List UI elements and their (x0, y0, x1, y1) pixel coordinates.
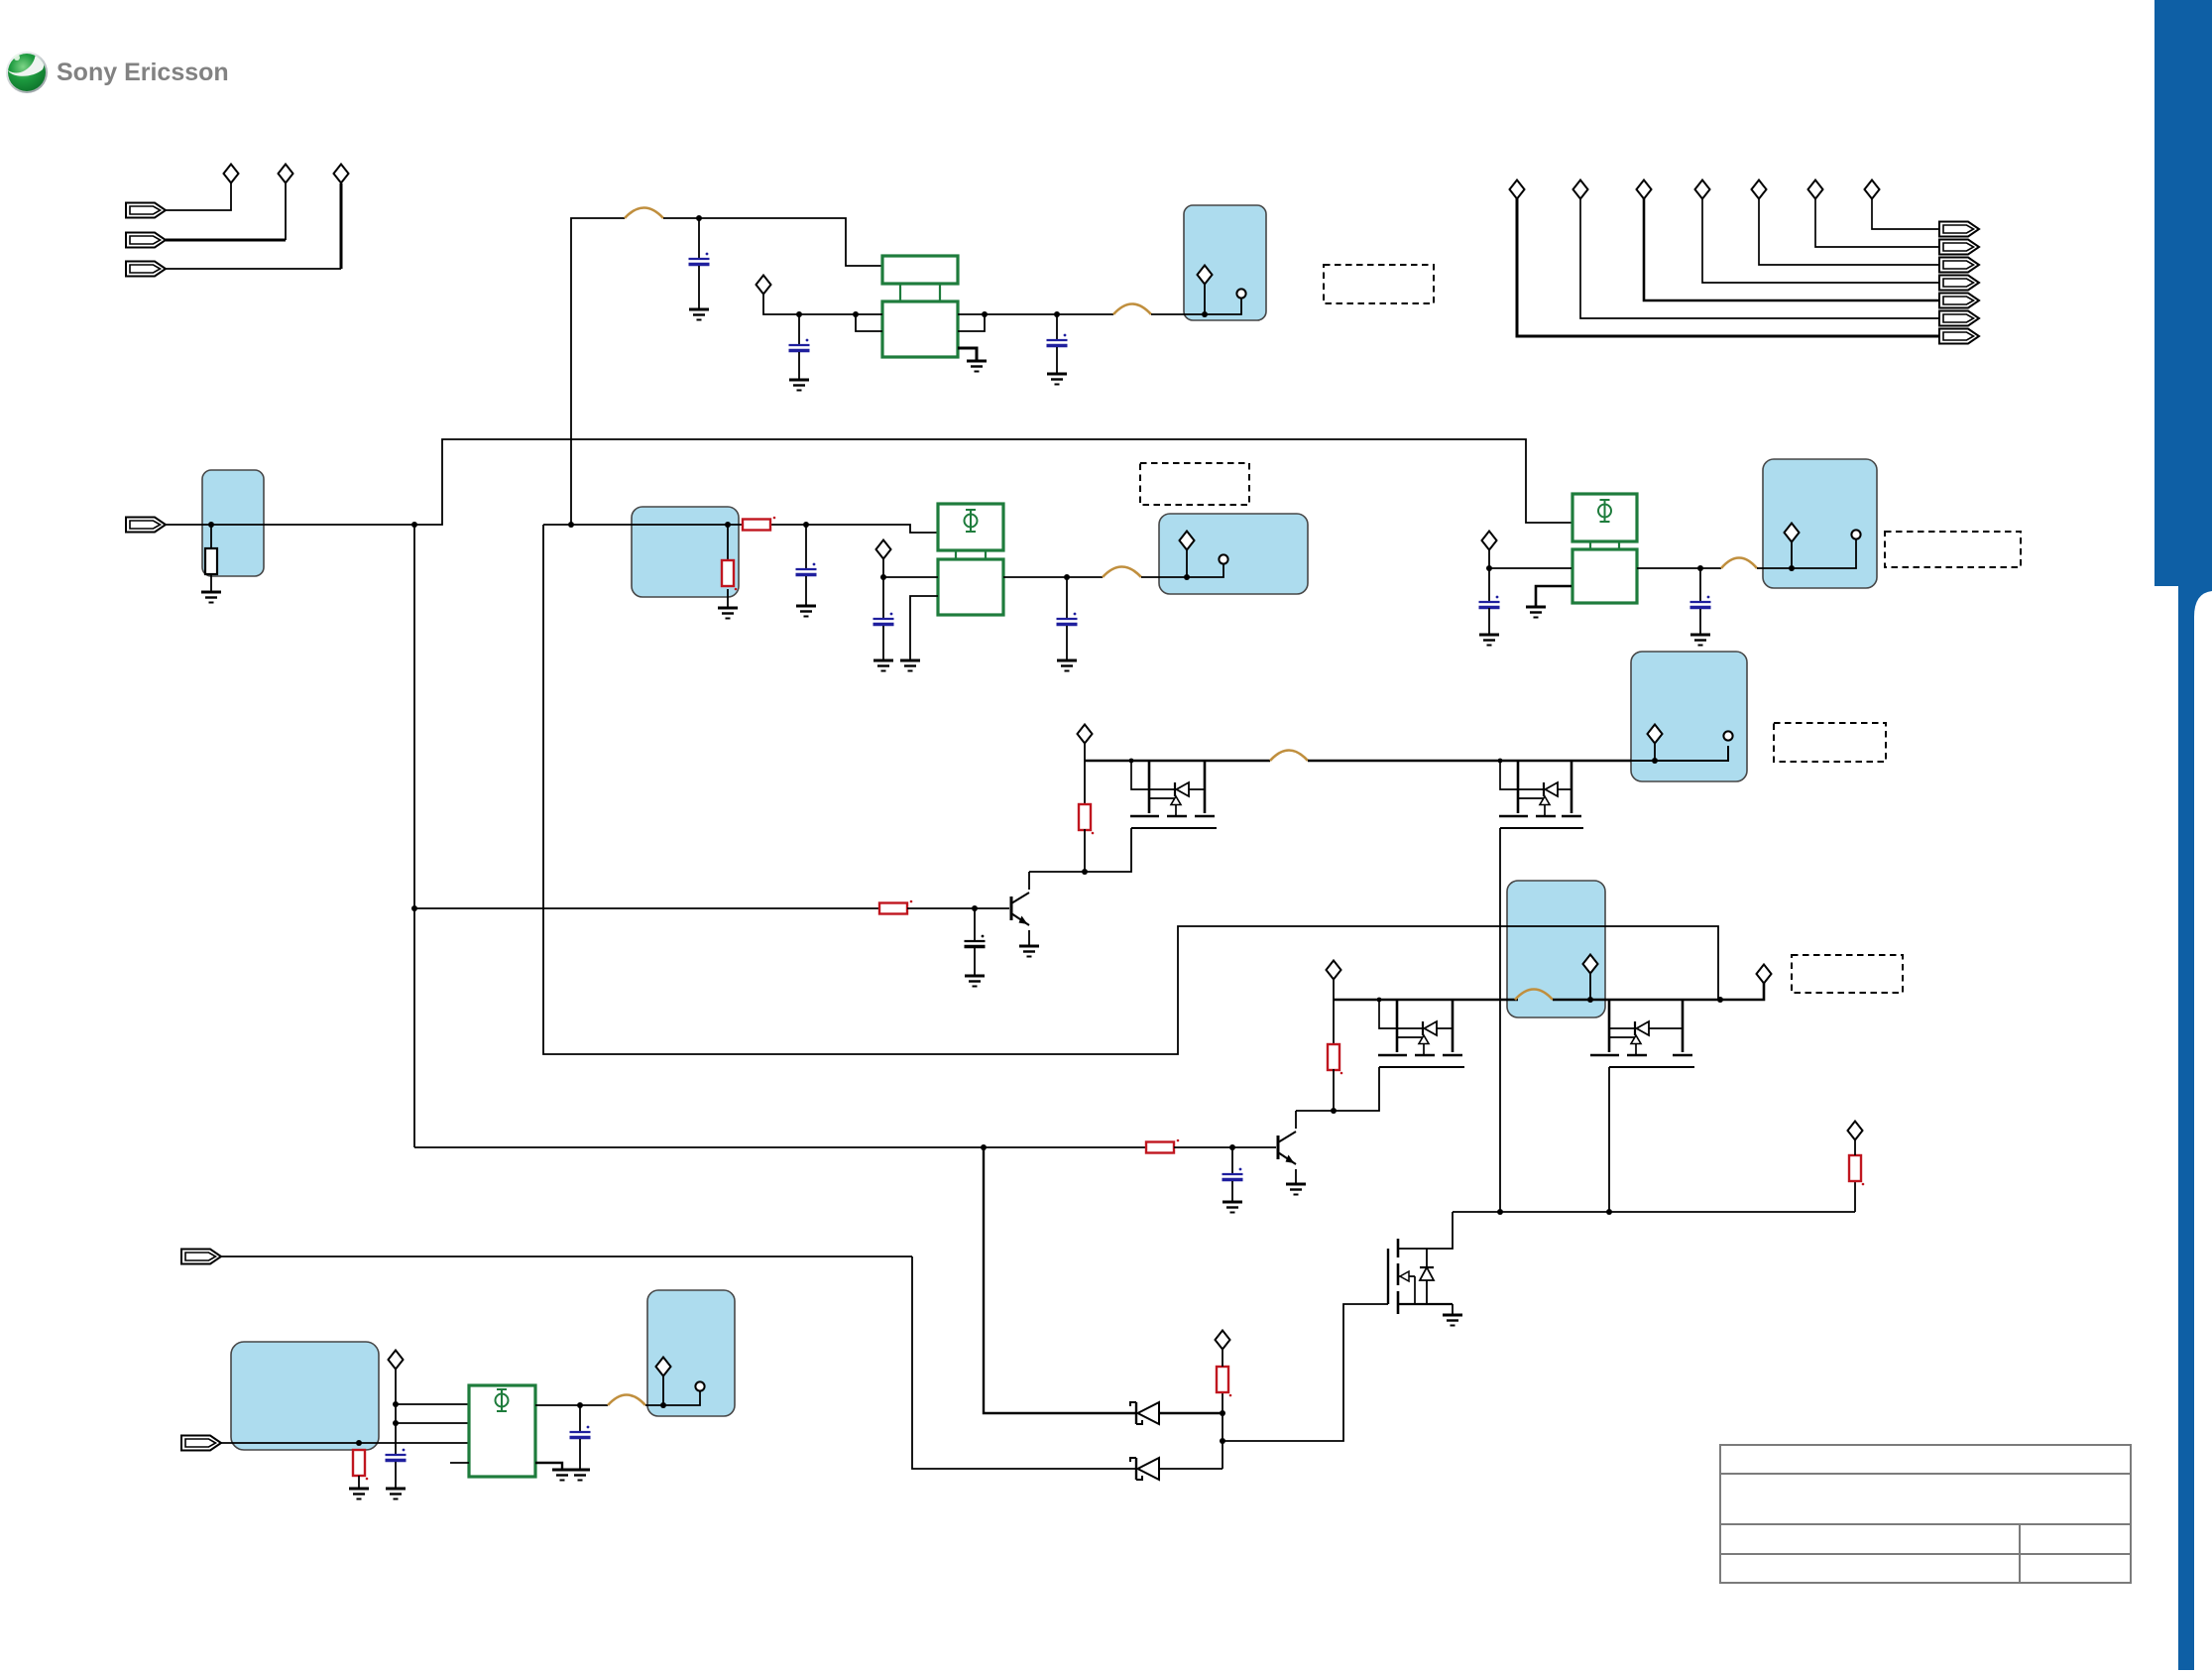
wire R9 to diamond (1222, 1349, 1223, 1367)
resistor R7 (1146, 1139, 1179, 1153)
capacitor C9 (965, 935, 986, 947)
capacitor C1 (689, 253, 710, 265)
ground C11 (386, 1489, 406, 1499)
wire VSIM diamond stem (662, 1376, 664, 1405)
wire C9 to ground (974, 948, 976, 976)
transistor Q3 (NPN) (1011, 893, 1029, 925)
junction C9 (972, 905, 978, 911)
junction VOUT3 (1486, 565, 1492, 571)
junction C2 (796, 311, 802, 317)
resistor R6 (1328, 1044, 1342, 1074)
junction U1 left pins (853, 311, 859, 317)
connector Q5 (top-right) (1939, 258, 1979, 273)
ground U2 (900, 660, 920, 671)
junction C4 (803, 522, 809, 528)
wire P1 to node A (166, 183, 231, 210)
wire diamond T4 to connector Q4 (1702, 198, 1939, 283)
wire R9 stem (1222, 1391, 1223, 1413)
wire R6 to collector node (1333, 1069, 1335, 1111)
wire U4 pin1 (396, 1403, 469, 1405)
capacitor C12 (570, 1426, 591, 1438)
wire Q6 emitter drop (1295, 1169, 1297, 1184)
junction C8 (1697, 565, 1703, 571)
junction B1 branch (411, 905, 417, 911)
junction R10 tap (356, 1440, 362, 1446)
ground Q7 source (1443, 1315, 1462, 1326)
wire P5 drop to D2 (912, 1256, 1136, 1469)
junction VOUT-A diamond stem (1652, 758, 1658, 764)
diamond VMEM (1180, 532, 1195, 550)
wire U2 gnd pin (910, 596, 938, 660)
diamond VDIG (1198, 266, 1213, 285)
wire R5 to base node (907, 907, 975, 909)
transistor Q2 (PMOS) (1499, 761, 1583, 828)
ground R2 (718, 608, 738, 619)
wire U4 output (535, 1404, 608, 1406)
dashed label box DR4 (1774, 723, 1886, 762)
junction VOUT2 (880, 574, 886, 580)
junction C6 (1064, 574, 1070, 580)
off-page diamond C (334, 165, 349, 183)
wire C11 to ground (395, 1462, 397, 1489)
diamond node VOUT2 (876, 540, 891, 559)
wire VBUS vertical branch (413, 525, 415, 1147)
inductor L2 (1113, 304, 1151, 315)
wire Q6 collector riser (1295, 1111, 1297, 1129)
off-page diamond T6 (1808, 180, 1823, 199)
connector P3 (126, 262, 166, 277)
wire U1 output pin2 (958, 313, 1057, 315)
wire VRF diamond stem (1791, 541, 1793, 568)
resistor R9 (1217, 1367, 1231, 1396)
pin circle VMEM (1219, 554, 1227, 563)
wire P3 to node C (166, 268, 341, 270)
blue sidebar (2154, 0, 2212, 1670)
wire VOUT2 stem (882, 558, 884, 577)
wire Q3 emitter drop (1028, 930, 1030, 946)
net label box NL1 (202, 470, 264, 576)
transistor Q1 (PMOS) (1130, 761, 1217, 828)
junction VBUS drop (981, 1144, 987, 1150)
wire Q3 collector riser (1028, 872, 1030, 890)
wire C5 stem (882, 577, 884, 619)
wire C3 to ground (1056, 347, 1058, 374)
resistor R1 (black) (205, 548, 217, 574)
wire R1 to ground (210, 574, 212, 592)
diamond VOUT-A (1648, 725, 1663, 744)
wire U1 pin3 left step (856, 314, 882, 331)
diamond node VBATT (389, 1351, 404, 1370)
capacitor C6 (1057, 613, 1078, 625)
wire R1 stem (210, 525, 212, 548)
resistor R5 (879, 900, 912, 914)
junction P4 branch (411, 522, 417, 528)
wire VOUT3 stem (1488, 549, 1490, 568)
connector Q2 (top-right) (1939, 311, 1979, 326)
diamond node EN1 (1078, 725, 1093, 744)
resistor R10 (353, 1450, 368, 1480)
regulator U3 (1572, 494, 1637, 603)
pin circle VRF (1851, 530, 1860, 538)
connector P2 (126, 233, 166, 248)
wire L2 to VDIG pins (1151, 299, 1241, 314)
off-page diamond T5 (1752, 180, 1767, 199)
ground Q3 emitter (1019, 946, 1039, 957)
wire Q7 gate run (1222, 1304, 1388, 1441)
wire diamond T2 to connector Q2 (1580, 198, 1939, 318)
off-page diamond B (279, 165, 293, 183)
diamond node EN4 (1848, 1122, 1863, 1140)
wire Q5 gate long drop (1608, 1067, 1610, 1212)
junction U4 pin2 tap (393, 1420, 399, 1426)
connector Q7 (top-right) (1939, 222, 1979, 237)
wire diamond T6 to connector Q6 (1815, 198, 1939, 247)
wire rail1 right (1308, 760, 1631, 763)
wire R10 to ground (358, 1476, 360, 1489)
net label box NL3 (1507, 881, 1605, 1017)
regulator U1 (882, 256, 958, 357)
ground C10 (1222, 1202, 1242, 1213)
net label box VMEM (1159, 514, 1308, 594)
net label box VRF (1763, 459, 1877, 588)
junction U1 outputs (982, 311, 988, 317)
regulator U4 (469, 1385, 535, 1477)
ground U3 (1526, 607, 1546, 618)
wire U1 gnd pin (958, 348, 977, 361)
wire Q3 base (975, 907, 1009, 909)
diode D1 (schottky) (1130, 1402, 1159, 1424)
diamond node EN5 (1216, 1331, 1230, 1350)
diamond node EN2 (1327, 961, 1341, 980)
capacitor C7 (1479, 596, 1500, 608)
dashed label box DR2 (1140, 463, 1249, 505)
wire U2 main row left (883, 576, 938, 578)
svg-text:Sony Ericsson: Sony Ericsson (57, 59, 229, 86)
wire row B1 (414, 907, 879, 909)
wire R8 upper stem (1854, 1139, 1856, 1155)
wire C12 stem (579, 1405, 581, 1432)
ground C8 (1690, 635, 1710, 646)
wire VBATT stem (395, 1369, 397, 1455)
junction SW-Q2gate (1497, 1209, 1503, 1215)
junction Q6 collector node (1331, 1108, 1337, 1114)
resistor R3 (743, 517, 775, 531)
wire C1 to ground (698, 266, 700, 309)
transistor Q7 (NMOS vertical) (1388, 1239, 1453, 1314)
ground U4 (552, 1470, 572, 1481)
wire rail2 left (1334, 999, 1518, 1002)
wire U4 pin2 (396, 1422, 469, 1424)
wire X branch down (543, 525, 1718, 1054)
wire C8 to ground (1699, 609, 1701, 635)
capacitor C4 (796, 563, 817, 575)
junction Q3 collector node (1082, 869, 1088, 875)
junction Q2 body tap (1498, 759, 1503, 764)
connector P1 (top-left) (126, 203, 166, 218)
wire P4 row (166, 439, 1572, 525)
wire U3 main row left (1489, 567, 1572, 569)
pin circle VOUT-A (1723, 731, 1732, 740)
wire C4 to ground (805, 576, 807, 606)
wire C6 stem (1066, 577, 1068, 619)
net label box NL2 (632, 507, 739, 597)
wire P6 row (221, 1442, 469, 1444)
wire C2 to ground (798, 352, 800, 380)
net label box VDIG (1184, 205, 1266, 320)
wire VMEM diamond stem (1186, 549, 1188, 577)
wire to L2 (1057, 313, 1113, 315)
dashed label box DR1 (1324, 265, 1434, 303)
wire NL3 diamond stem (1589, 973, 1591, 1000)
wire C5 to ground (882, 626, 884, 660)
wire U1 output pin3 step (958, 314, 985, 331)
wire rail2 right (1683, 983, 1764, 1000)
capacitor C8 (1690, 596, 1711, 608)
wire D1 cathode to node (1159, 1412, 1222, 1414)
junction rail2 feed (1717, 997, 1723, 1003)
wire C4 stem (805, 525, 807, 569)
diamond VRF (1785, 524, 1800, 542)
wire Q7 source to ground (1452, 1304, 1454, 1315)
ground C9 (965, 976, 985, 987)
wire U4 stub pin (450, 1462, 469, 1464)
wire U3 gnd pin (1536, 586, 1572, 607)
resistor R8 (1849, 1155, 1864, 1185)
junction NL3 diamond stem (1587, 997, 1593, 1003)
junction C12 (577, 1402, 583, 1408)
ground C3 (1047, 374, 1067, 385)
wire VBUS drop to D1 (984, 1147, 1136, 1413)
wire node B riser (285, 183, 287, 240)
ground C4 (796, 606, 816, 617)
ground U1 (967, 361, 987, 372)
connector P5 (lower-left) (181, 1250, 221, 1264)
connector Q6 (top-right) (1939, 240, 1979, 255)
diamond NL3 (1583, 955, 1598, 974)
ground C5 (873, 660, 893, 671)
diamond node VOUT3 (1482, 532, 1497, 550)
wire diamond T3 to connector Q3 (1644, 198, 1939, 300)
wire EN2 stem to rail2 (1333, 979, 1335, 1000)
wire C1 stem (698, 218, 700, 259)
wire X row to U2 (543, 525, 938, 533)
wire R7 to base node (1174, 1146, 1232, 1148)
wire rail2 mid (1553, 999, 1683, 1002)
diamond node EN3 (1757, 965, 1772, 984)
diode D2 (schottky) (1130, 1458, 1159, 1480)
junction Q1 body tap (1129, 759, 1134, 764)
wire C7 to ground (1488, 608, 1490, 635)
title block table (1720, 1445, 2131, 1583)
junction R2 tap (725, 522, 731, 528)
off-page diamond A (224, 165, 239, 183)
wire diode node vertical (1222, 1413, 1223, 1469)
wire U4 gnd pin (535, 1463, 562, 1470)
wire P5 row (221, 1256, 912, 1257)
capacitor C2 (789, 339, 810, 351)
wire R6 stem top (1333, 1000, 1335, 1044)
junction L1 output (696, 215, 702, 221)
wire EN1 stem to rail1 (1084, 743, 1086, 761)
wire C3 stem (1056, 314, 1058, 340)
transistor Q4 (PMOS) (1378, 1000, 1464, 1067)
junction SW-Q5gate (1606, 1209, 1612, 1215)
wire VOUT1 row left (763, 294, 856, 314)
wire rail1 left (1085, 760, 1270, 763)
wire U3 output row (1637, 567, 1721, 569)
wire P2 to node B (166, 239, 286, 242)
wire R4 to collector node (1084, 829, 1086, 872)
connector P4 (mid-left input) (126, 518, 166, 533)
junction VDIG diamond stem (1202, 311, 1208, 317)
junction C10 (1229, 1144, 1235, 1150)
wire VOUT-A diamond stem (1654, 743, 1656, 761)
junction VSIM diamond stem (660, 1402, 666, 1408)
transistor Q5 (PMOS) (1590, 1000, 1694, 1067)
ground R10 (349, 1489, 369, 1499)
regulator U2 (938, 504, 1003, 615)
junction VMEM diamond stem (1184, 574, 1190, 580)
wire L1 to U1 input (663, 218, 882, 266)
wire R2 stem (727, 525, 729, 560)
wire Q1 gate run (1029, 828, 1131, 872)
wire R8 lower stem (1854, 1180, 1856, 1212)
diamond node VOUT1 (757, 276, 771, 295)
wire row B2 (414, 1146, 1146, 1148)
wire Q6 base (1232, 1146, 1276, 1148)
wire VDIG diamond stem (1204, 284, 1206, 314)
net label box VSIM (647, 1290, 735, 1416)
wire SW to Q7 drain (1427, 1212, 1453, 1249)
ground C6 (1057, 660, 1077, 671)
inductor L7 (608, 1395, 645, 1406)
capacitor C3 (1047, 334, 1068, 346)
inductor L3 (1103, 567, 1141, 578)
inductor L4 (1721, 558, 1757, 569)
wire C12 to ground (579, 1439, 581, 1470)
inductor L5 (1270, 751, 1308, 762)
net label box NL4 (231, 1342, 379, 1450)
junction R1 tap (208, 522, 214, 528)
ground C2 (789, 380, 809, 391)
off-page diamond T2 (1573, 180, 1588, 199)
wire C6 to ground (1066, 626, 1068, 660)
wire node C riser (340, 183, 343, 269)
connector Q3 (top-right) (1939, 294, 1979, 308)
capacitor C10 (1222, 1168, 1243, 1180)
junction U4 pin1 tap (393, 1401, 399, 1407)
wire Q4 gate run (1296, 1067, 1379, 1111)
inductor L1 (625, 208, 663, 219)
resistor R4 (1079, 804, 1094, 834)
junction VRF diamond stem (1789, 565, 1795, 571)
wire C10 to ground (1231, 1181, 1233, 1202)
ground C7 (1479, 635, 1499, 646)
wire C9 stem (974, 908, 976, 941)
pin circle VSIM (695, 1381, 704, 1390)
ground Q6 emitter (1286, 1184, 1306, 1195)
wire D2 cathode to node (1159, 1468, 1222, 1470)
wire diamond T5 to connector Q5 (1759, 198, 1939, 265)
capacitor C11 (386, 1449, 407, 1461)
capacitor C5 (873, 613, 894, 625)
wire R4 stem top (1084, 761, 1086, 804)
wire L3 into VMEM (1141, 564, 1223, 577)
junction diode node mid (1220, 1438, 1225, 1444)
inductor L6 (1515, 990, 1553, 1001)
off-page diamond T1 (1510, 180, 1525, 199)
off-page diamond T7 (1865, 180, 1880, 199)
wire diamond T7 to connector Q7 (1872, 198, 1939, 229)
ground C12 (570, 1470, 590, 1481)
dashed label box DR3 (1885, 532, 2021, 567)
wire Q2 gate long drop (1499, 828, 1501, 1212)
wire L4 into VRF (1757, 539, 1856, 568)
wire diamond T1 to connector Q1 (1517, 198, 1939, 336)
junction Q4 body tap (1377, 998, 1382, 1003)
wire rail1 into box (1631, 746, 1728, 761)
ground R1 (201, 592, 221, 603)
wire row SW (1453, 1211, 1855, 1213)
ground C1 (689, 309, 709, 320)
resistor R2 (722, 560, 737, 590)
net label box VOUT-A (1631, 652, 1747, 781)
connector Q4 (top-right) (1939, 276, 1979, 291)
off-page diamond T3 (1637, 180, 1652, 199)
wire C2 stem (798, 314, 800, 345)
wire U2 output row (1003, 576, 1103, 578)
wire R2 to ground (727, 589, 729, 608)
wire L7 into VSIM (645, 1391, 700, 1405)
junction D1 node (1220, 1410, 1225, 1416)
transistor Q6 (NPN) (1278, 1132, 1296, 1164)
pin circle VDIG (1236, 289, 1245, 298)
diamond VSIM (656, 1358, 671, 1376)
off-page diamond T4 (1695, 180, 1710, 199)
dashed label box DR5 (1792, 955, 1903, 993)
wire VIN vertical feed (571, 218, 625, 525)
wire C7 stem (1488, 568, 1490, 602)
wire C10 stem (1231, 1147, 1233, 1174)
connector P6 (bottom-left) (181, 1436, 221, 1451)
connector Q1 (top-right) (1939, 329, 1979, 344)
wire C8 stem (1699, 568, 1701, 602)
junction VIN drop (568, 522, 574, 528)
junction C3 (1054, 311, 1060, 317)
wire U1 pin2 left (856, 313, 882, 315)
